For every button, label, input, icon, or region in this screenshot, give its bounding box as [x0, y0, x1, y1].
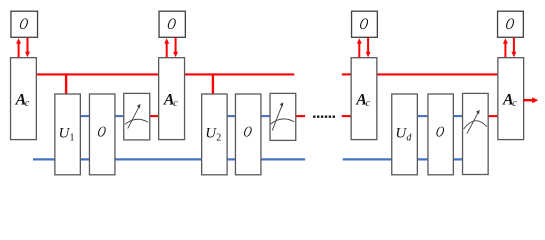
svg-text:1: 1 — [70, 133, 75, 144]
svg-text:c: c — [173, 98, 178, 109]
svg-text:c: c — [25, 98, 30, 109]
svg-text:c: c — [512, 98, 517, 109]
svg-text:2: 2 — [216, 133, 221, 144]
svg-text:c: c — [366, 98, 371, 109]
